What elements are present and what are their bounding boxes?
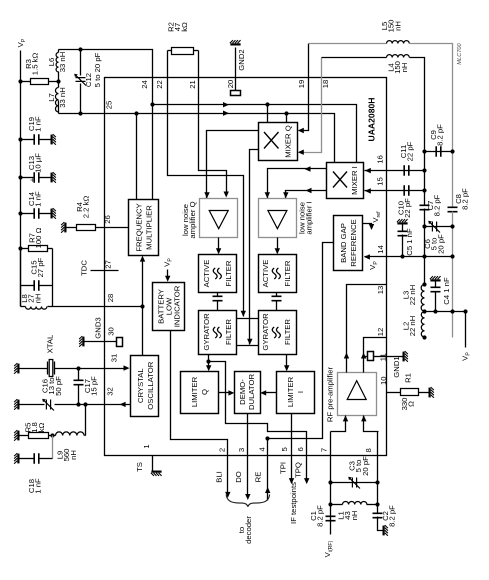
wire gyrator I to limiter I	[286, 355, 288, 369]
mixer Q box U1a	[259, 123, 298, 161]
svg-text:LIMITER: LIMITER	[190, 376, 199, 407]
wire mixer I out 1 to LNA I	[268, 169, 327, 199]
svg-text:FILTER: FILTER	[224, 260, 233, 286]
svg-text:Ω: Ω	[407, 401, 416, 407]
active filter Q box	[199, 255, 237, 293]
node C5 pin14	[400, 254, 404, 258]
svg-text:22: 22	[155, 80, 164, 89]
node C3 right	[375, 480, 379, 484]
svg-text:8.2 pF: 8.2 pF	[461, 188, 470, 210]
wire LO2 drop to mixer Q	[286, 114, 288, 123]
resistor R2	[172, 48, 194, 55]
svg-text:25: 25	[105, 101, 114, 110]
node C3 left	[328, 480, 332, 484]
gyrator filter Q box	[199, 311, 237, 355]
pad box pin20	[231, 91, 241, 96]
wire mixer I out 2 to LNA I	[286, 191, 327, 199]
svg-text:1 nF: 1 nF	[34, 116, 43, 132]
resistor R4 pin26	[61, 222, 66, 233]
node C9 right	[450, 149, 454, 153]
inductor L6	[56, 53, 58, 72]
svg-text:18: 18	[321, 80, 330, 89]
svg-text:GYRATOR: GYRATOR	[261, 313, 270, 351]
svg-text:RF pre-amplifier: RF pre-amplifier	[326, 367, 335, 423]
svg-text:8.2 pF: 8.2 pF	[316, 505, 325, 527]
wire L5 to rail	[410, 44, 453, 208]
wire Vref out	[363, 224, 372, 227]
node pin14 lineA	[422, 254, 426, 258]
svg-text:20 pF: 20 pF	[436, 234, 445, 254]
svg-text:TS: TS	[135, 462, 144, 472]
svg-text:2: 2	[217, 448, 226, 452]
wire VP to battery low	[167, 270, 169, 280]
inductor L7	[55, 88, 58, 112]
svg-text:7: 7	[319, 448, 328, 452]
svg-text:DEMO-: DEMO-	[238, 379, 247, 405]
svg-text:12: 12	[376, 328, 385, 337]
brace to decoder	[226, 495, 269, 507]
svg-text:kΩ: kΩ	[37, 422, 46, 432]
svg-text:5: 5	[280, 447, 289, 451]
node C12 top	[78, 47, 82, 51]
wire TPQ net pin6 staircase	[209, 362, 307, 481]
wire L8 to pin28 and oscillator stem	[53, 306, 143, 308]
svg-text:RE: RE	[254, 472, 263, 483]
inductor L3	[421, 285, 424, 312]
wire LNA I to active filter I	[277, 238, 279, 253]
svg-text:24: 24	[140, 80, 149, 89]
svg-text:OSCILLATOR: OSCILLATOR	[146, 361, 155, 409]
svg-text:TPI: TPI	[279, 462, 288, 474]
svg-text:10 μF: 10 μF	[34, 153, 43, 173]
wire pin8 net	[377, 432, 379, 514]
svg-text:ACTIVE: ACTIVE	[202, 260, 211, 288]
svg-text:L6: L6	[47, 58, 56, 67]
limiter I box	[277, 372, 315, 414]
capacitor C8 in rail	[448, 207, 458, 211]
trimmer C3 link	[331, 482, 378, 484]
mixer I box U1b	[327, 163, 364, 199]
inductor L5	[387, 41, 410, 44]
wire gyrator link lower	[237, 345, 259, 347]
svg-text:C4 1 nF: C4 1 nF	[442, 277, 451, 305]
wire freq mult feed	[136, 114, 138, 200]
svg-text:32: 32	[106, 387, 115, 396]
svg-text:100 Ω: 100 Ω	[34, 227, 43, 248]
svg-text:1 nF: 1 nF	[34, 191, 43, 207]
capacitor C13 to ground	[18, 175, 22, 179]
demodulator box	[235, 372, 261, 414]
node VP rail	[463, 309, 467, 313]
wire LO1 drop to mixer Q	[267, 105, 269, 123]
IC outline UAA2080H	[105, 78, 387, 456]
svg-text:14: 14	[376, 244, 385, 253]
svg-text:8: 8	[364, 448, 373, 452]
svg-text:8.2 pF: 8.2 pF	[433, 194, 442, 216]
svg-text:5 to 20 pF: 5 to 20 pF	[93, 52, 102, 87]
ground GND3	[79, 336, 84, 347]
svg-text:22 nH: 22 nH	[408, 316, 417, 337]
wire preamp out to pin13	[347, 285, 387, 373]
svg-text:31: 31	[110, 354, 119, 363]
gyrator filter I box	[259, 311, 297, 355]
wire L4 to line A	[410, 58, 425, 206]
wire LNA Q to active filter Q	[218, 238, 220, 253]
node LO2 freq-mult tap	[134, 111, 138, 115]
wire LO line 1	[153, 105, 357, 163]
coupling capacitor I path	[276, 293, 278, 297]
resistor R5 to ground	[14, 430, 19, 441]
wire RE input pin4 to band gap	[268, 243, 334, 501]
ground XTAL line	[14, 363, 19, 374]
svg-text:C5 1 nF: C5 1 nF	[405, 228, 414, 256]
node L1 left	[328, 502, 332, 506]
wire preamp out to pin12	[364, 338, 387, 373]
wire pin7 net RF input	[330, 432, 332, 535]
node R3-L stem junction	[56, 79, 60, 83]
inductor L8	[21, 306, 26, 308]
wire rail B lower	[452, 212, 454, 338]
svg-text:3: 3	[237, 448, 246, 452]
svg-text:ACTIVE: ACTIVE	[261, 260, 270, 288]
resistor R3	[31, 79, 49, 85]
svg-text:IF testpoints: IF testpoints	[289, 482, 298, 524]
svg-text:DO: DO	[234, 471, 243, 483]
pin14 VP line	[365, 256, 453, 258]
svg-text:nH: nH	[400, 63, 409, 73]
pin16 line with C11	[365, 170, 425, 172]
capacitor C9 link	[425, 151, 453, 153]
wire TPI net pin5 from limiter I	[291, 414, 293, 481]
svg-text:decoder: decoder	[244, 516, 253, 544]
node RE junction	[265, 436, 269, 440]
svg-text:REFERENCE: REFERENCE	[349, 219, 358, 266]
wire TDC pin27	[91, 270, 119, 272]
wire pin32 line	[79, 404, 131, 406]
wire pin19 LO to mixer Q upper	[303, 44, 309, 131]
wire L5 line	[309, 43, 387, 45]
svg-text:FILTER: FILTER	[283, 319, 292, 345]
wire pin30	[85, 341, 117, 343]
wire gyrator link upper	[237, 318, 259, 320]
svg-text:nH: nH	[393, 21, 402, 31]
wire battery low out pin2 BLI	[171, 331, 228, 495]
node L3L2	[422, 309, 426, 313]
wire oscillator to multiplier	[142, 259, 144, 356]
wire VP rail right	[465, 312, 467, 348]
svg-text:33 nH: 33 nH	[58, 87, 67, 108]
svg-text:MIXER Q: MIXER Q	[284, 125, 293, 157]
node L2 bottom	[422, 335, 426, 339]
capacitor C2	[373, 513, 383, 517]
inductor L9	[56, 432, 85, 436]
svg-text:L7: L7	[47, 93, 56, 102]
capacitor C5 to ground	[397, 219, 408, 224]
capacitor C4 to ground	[430, 276, 441, 281]
wire LO line 2 (pin 25)	[59, 114, 335, 163]
resistor R1	[401, 389, 419, 396]
svg-text:GYRATOR: GYRATOR	[202, 313, 211, 351]
wire VP rail	[20, 51, 22, 307]
capacitor C14 to ground	[18, 211, 22, 215]
battery low indicator box	[153, 283, 185, 331]
svg-text:13: 13	[376, 286, 385, 295]
node pin32 junction	[76, 402, 80, 406]
node LO2 mixerQ tap	[284, 111, 288, 115]
low noise amplifier I box	[259, 199, 297, 238]
svg-text:MULTIPLIER: MULTIPLIER	[145, 205, 154, 250]
svg-text:nH: nH	[33, 294, 42, 304]
svg-text:GND1: GND1	[392, 356, 401, 377]
svg-text:20 pF: 20 pF	[361, 456, 370, 476]
svg-text:GND2: GND2	[237, 49, 246, 70]
wire gyrator Q to limiter Q	[208, 355, 210, 369]
node C6 right	[450, 224, 454, 228]
wire L6-R3-L7 stem	[58, 50, 60, 53]
capacitor C7 in line A	[420, 205, 430, 209]
svg-text:21: 21	[188, 80, 197, 89]
trimmer C6 link	[425, 226, 453, 228]
wire pin1 TS	[152, 456, 154, 471]
crystal XTAL	[48, 360, 55, 377]
pin15 line with C10	[365, 190, 425, 192]
svg-text:CRYSTAL: CRYSTAL	[136, 368, 145, 403]
svg-text:19: 19	[297, 80, 306, 89]
svg-text:27: 27	[104, 260, 113, 269]
svg-text:16: 16	[376, 155, 385, 164]
wire C18 riser	[52, 436, 54, 459]
svg-text:8.2 pF: 8.2 pF	[388, 505, 397, 527]
node L9 riser	[83, 402, 87, 406]
svg-text:UAA2080H: UAA2080H	[367, 98, 377, 142]
svg-text:22 pF: 22 pF	[406, 141, 415, 161]
node C12 bottom	[78, 111, 82, 115]
wire L3-L2 node line	[425, 311, 466, 313]
svg-text:+: +	[27, 177, 36, 182]
svg-text:amplifier Q: amplifier Q	[188, 201, 197, 238]
wire tank top	[59, 50, 153, 78]
svg-text:kΩ: kΩ	[180, 22, 189, 32]
svg-text:nH: nH	[69, 450, 78, 460]
svg-text:1.5 kΩ: 1.5 kΩ	[31, 53, 40, 76]
svg-text:FILTER: FILTER	[224, 319, 233, 345]
svg-text:XTAL: XTAL	[45, 334, 54, 353]
node pin15 line A	[422, 188, 426, 192]
node L3 top	[422, 282, 426, 286]
svg-text:TDC: TDC	[80, 260, 89, 276]
node C17 top	[76, 366, 80, 370]
coupling capacitor Q path	[217, 293, 219, 297]
svg-text:8.2 pF: 8.2 pF	[436, 124, 445, 146]
svg-text:15 pF: 15 pF	[90, 376, 99, 396]
svg-text:20: 20	[226, 80, 235, 89]
node TPQ tap on gyrator-limiter Q line	[206, 359, 210, 363]
wire mixer Q out 1 to LNA Q	[207, 131, 259, 199]
node C9 left	[422, 149, 426, 153]
trimmer capacitor C12	[80, 50, 82, 76]
wire pin21 net to LNA Q	[199, 51, 227, 196]
svg-text:15: 15	[376, 177, 385, 186]
wire pin18 LO to mixer Q lower	[303, 58, 322, 153]
frequency multiplier box	[129, 200, 159, 256]
svg-text:6: 6	[296, 447, 305, 451]
svg-text:1: 1	[142, 444, 151, 448]
svg-text:30: 30	[107, 327, 116, 336]
inductor L4	[387, 55, 410, 58]
capacitor C19 to ground	[18, 137, 22, 141]
RF pre-amplifier box	[338, 373, 377, 416]
svg-text:TPQ: TPQ	[293, 462, 302, 478]
parallel R7 C15 L8	[18, 246, 22, 250]
capacitor C1	[326, 516, 336, 520]
svg-text:33 nH: 33 nH	[58, 52, 67, 73]
inductor L1	[343, 501, 367, 504]
trimmer C16 to ground	[14, 399, 19, 410]
ground C2	[383, 525, 388, 536]
pad box pin11	[368, 352, 374, 361]
wire limiter Q to demodulator	[219, 392, 231, 394]
wire L4 line	[322, 57, 387, 59]
svg-text:nH: nH	[350, 511, 359, 521]
wire demod out pin3 DO	[247, 414, 249, 497]
node C4 bottom	[433, 309, 437, 313]
crystal oscillator box	[131, 356, 159, 417]
svg-text:22 nH: 22 nH	[408, 285, 417, 306]
wire pin20	[235, 48, 237, 91]
svg-text:4: 4	[258, 446, 267, 451]
svg-text:BAND GAP: BAND GAP	[339, 223, 348, 263]
capacitor C18 to ground	[14, 453, 19, 464]
ground GND1	[403, 351, 408, 362]
node pin16 line A	[422, 168, 426, 172]
wire crystal to pin31	[55, 368, 128, 370]
svg-text:MIXER I: MIXER I	[350, 166, 359, 195]
wire pin11 inner	[365, 356, 368, 358]
svg-text:22 pF: 22 pF	[403, 198, 412, 218]
inductor L2	[421, 312, 424, 338]
node C6 left	[422, 224, 426, 228]
wire pin22 net to gyrator link	[168, 51, 244, 317]
wire mixer Q out 2 to gyrator link	[250, 150, 259, 345]
active filter I box	[259, 255, 297, 293]
node VP-R3 junction	[18, 79, 22, 83]
svg-text:DULATOR: DULATOR	[247, 374, 256, 410]
svg-text:C12: C12	[84, 73, 93, 87]
capacitor C15	[21, 285, 35, 287]
svg-text:26: 26	[103, 215, 112, 224]
pad box pin30	[117, 338, 123, 347]
svg-text:27 pF: 27 pF	[36, 257, 45, 277]
svg-text:MLC700: MLC700	[457, 43, 463, 65]
wire pin11 GND1 outer	[387, 356, 403, 358]
node pin28 oscillator stem	[140, 304, 144, 308]
band gap reference box	[334, 216, 363, 271]
ground R1	[429, 387, 434, 398]
limiter Q box	[181, 372, 219, 414]
svg-text:Q: Q	[200, 389, 209, 395]
node C18 riser	[50, 433, 54, 437]
svg-text:2.2 kΩ: 2.2 kΩ	[82, 196, 91, 219]
ground TS	[151, 471, 162, 476]
svg-text:11: 11	[379, 353, 388, 361]
low noise amplifier Q box	[200, 199, 238, 238]
node pin14 railB	[450, 254, 454, 258]
svg-text:LIMITER: LIMITER	[286, 376, 295, 407]
wire L9 riser	[85, 405, 87, 436]
svg-text:FREQUENCY: FREQUENCY	[135, 203, 144, 251]
wire line A lower	[424, 209, 426, 285]
svg-text:28: 28	[106, 294, 115, 303]
capacitor C17	[78, 369, 80, 381]
svg-text:1 nF: 1 nF	[34, 478, 43, 494]
wire pin10 to R1	[387, 392, 401, 394]
svg-text:amplifier I: amplifier I	[305, 201, 314, 234]
svg-text:50 pF: 50 pF	[54, 376, 63, 396]
svg-text:BLI: BLI	[215, 471, 224, 483]
svg-text:FILTER: FILTER	[283, 260, 292, 286]
wire pin8 input to preamp	[364, 416, 379, 432]
wire limiter I to demodulator	[265, 392, 277, 394]
svg-text:GND3: GND3	[93, 317, 102, 338]
wire pin7 input to preamp	[331, 416, 346, 432]
svg-text:10: 10	[379, 376, 388, 385]
wire L1 line	[331, 504, 343, 506]
wire LO line pin24 vertical	[152, 78, 154, 200]
node LO1 mixerQ tap	[265, 102, 269, 106]
svg-text:R1: R1	[404, 373, 413, 383]
ground GND2	[230, 40, 241, 45]
node railB node line	[450, 309, 454, 313]
node L1 right	[375, 502, 379, 506]
svg-text:INDICATOR: INDICATOR	[173, 285, 182, 327]
node pin24-LO1 junction	[150, 102, 154, 106]
svg-text:I: I	[296, 391, 305, 393]
